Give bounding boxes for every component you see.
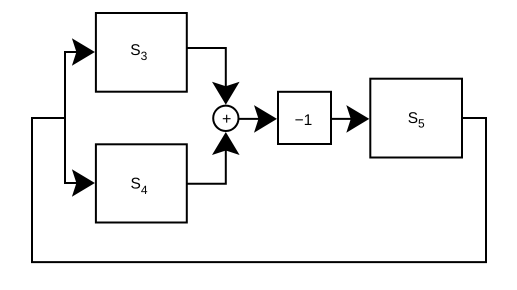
block S3 — [96, 13, 187, 92]
arrowhead into -1 block — [254, 105, 277, 133]
block -1 — [278, 92, 331, 144]
wire -1 block to S5 — [331, 118, 352, 120]
block S5 — [370, 79, 462, 158]
block S4 — [96, 144, 187, 222]
wire into S3 — [64, 51, 78, 53]
summing junction circle — [213, 106, 238, 131]
svg-text:+: + — [222, 111, 231, 128]
wire S4 output to summing junction — [187, 150, 226, 184]
arrowhead into S3 — [72, 38, 95, 66]
wire summing junction to -1 block — [239, 118, 260, 120]
svg-text:−1: −1 — [295, 112, 313, 129]
arrowhead down into summing junction — [212, 82, 240, 105]
wire: input branch vertical (splits to S3 and S4) — [64, 52, 66, 183]
arrowhead into S4 — [72, 169, 95, 197]
arrowhead into S5 — [346, 105, 369, 133]
wire S3 output to summing junction — [187, 48, 226, 88]
wire into S4 — [64, 182, 78, 184]
wire: feedback loop from S5 output around bottom and left — [32, 118, 486, 262]
arrowhead up into summing junction — [212, 132, 240, 155]
